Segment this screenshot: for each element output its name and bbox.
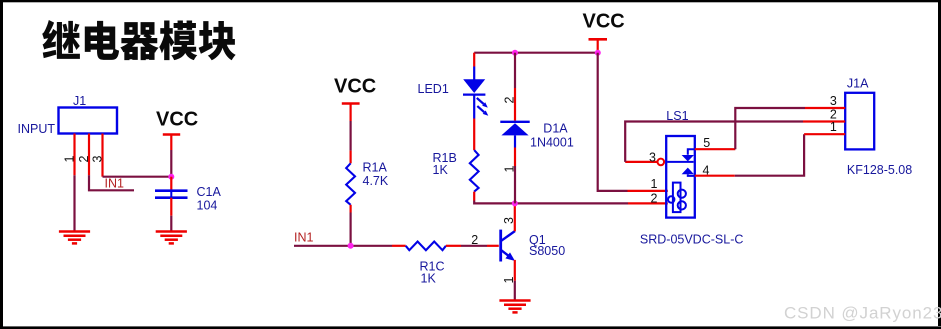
frame left border — [0, 0, 3, 329]
wire VCC to R1A — [350, 121, 352, 151]
svg-text:104: 104 — [197, 199, 218, 213]
relay NC contact arrow — [682, 155, 694, 161]
relay LS1 body — [666, 136, 695, 218]
svg-text:R1A: R1A — [363, 161, 388, 175]
svg-text:LED1: LED1 — [418, 82, 449, 96]
transistor Q1 emitter arrow — [505, 252, 515, 261]
wire relay pin5 to J1A pin3 — [735, 108, 805, 149]
Q1 emitter pin — [514, 260, 516, 281]
relay coil loop bottom — [678, 201, 686, 209]
wire R1A to IN1 node — [350, 213, 352, 246]
relay coil loop left — [668, 196, 674, 202]
svg-text:IN1: IN1 — [294, 231, 314, 245]
wire relay pin3 to J1A pin2 — [625, 122, 803, 162]
transistor Q1 emitter stroke — [501, 250, 509, 256]
svg-text:1K: 1K — [433, 163, 449, 177]
wire node to C1A — [170, 177, 172, 190]
diode D1A pin 2 — [514, 88, 516, 121]
resistor R1B body — [470, 150, 479, 192]
Q1 collector pin — [514, 204, 516, 231]
relay pin 3 circle — [658, 159, 665, 166]
svg-text:4: 4 — [703, 164, 710, 178]
resistor R1A pin top — [350, 151, 352, 164]
svg-text:3: 3 — [649, 151, 656, 165]
node junction IN1/R1A — [348, 243, 354, 249]
power port VCC top stem — [597, 39, 599, 52]
wire J1 pin1 to ground — [73, 175, 75, 231]
svg-text:2: 2 — [77, 156, 91, 163]
connector J1A body — [845, 93, 874, 150]
J1 pin 1 — [73, 134, 75, 176]
frame bottom border — [0, 326, 941, 329]
wire VCC column — [598, 53, 628, 191]
power port VCC middle bar — [342, 102, 360, 105]
wire C1A to ground — [170, 216, 172, 232]
relay coil pin1 stub — [628, 190, 668, 192]
svg-text:3: 3 — [502, 217, 516, 224]
wire J1 pin2 stub IN1 — [89, 175, 134, 190]
resistor R1A pin bottom — [350, 205, 352, 213]
resistor R1C pin right — [446, 245, 461, 247]
svg-text:1: 1 — [651, 177, 658, 191]
svg-text:D1A: D1A — [543, 122, 568, 136]
wire top rail — [474, 52, 598, 54]
D1A top pin — [514, 53, 516, 88]
svg-text:2: 2 — [471, 233, 478, 247]
svg-text:J1A: J1A — [847, 77, 869, 91]
wire relay pin4 to J1A pin1 — [735, 134, 804, 176]
node junction J1.3/VCC/C1A — [168, 174, 174, 180]
svg-text:3: 3 — [91, 156, 105, 163]
wire IN1 to R1C — [294, 245, 392, 247]
LED1 top pin — [473, 53, 475, 67]
svg-text:SRD-05VDC-SL-C: SRD-05VDC-SL-C — [640, 233, 744, 247]
svg-text:4.7K: 4.7K — [363, 174, 389, 188]
J1 pin 2 — [88, 134, 90, 176]
resistor R1C pin left — [392, 245, 406, 247]
svg-text:1K: 1K — [421, 272, 437, 286]
J1A pin 3 stub — [805, 107, 845, 109]
svg-text:VCC: VCC — [156, 109, 198, 131]
relay NC contact step — [688, 149, 694, 155]
wire R1C to Q1 — [461, 245, 487, 247]
diode LED1 triangle — [463, 79, 485, 93]
svg-text:KF128-5.08: KF128-5.08 — [847, 163, 912, 177]
title 继电器模块 — [42, 20, 235, 60]
svg-text:2: 2 — [502, 97, 516, 104]
ground under Q1 — [499, 299, 530, 302]
relay pin 3 stub — [625, 161, 657, 163]
LED1/R1B pin — [473, 119, 475, 151]
J1A pin 2 stub — [803, 120, 845, 122]
svg-text:5: 5 — [703, 136, 710, 150]
relay NO contact arrow — [682, 168, 694, 175]
svg-text:1: 1 — [830, 120, 837, 134]
LED1 anode lead — [473, 67, 475, 81]
transistor Q1 collector stroke — [501, 231, 515, 241]
svg-text:1: 1 — [63, 156, 77, 163]
power port VCC top bar — [589, 38, 608, 41]
svg-text:1N4001: 1N4001 — [530, 136, 574, 150]
relay NO contact step — [688, 174, 694, 176]
diode D1A triangle — [501, 123, 528, 135]
capacitor C1A plates — [155, 189, 188, 192]
svg-text:2: 2 — [651, 192, 658, 206]
svg-text:VCC: VCC — [334, 76, 376, 98]
relay coil loop top — [678, 190, 686, 198]
diode D1A cathode bar — [500, 121, 529, 123]
resistor R1B pin bottom — [473, 192, 475, 201]
node junction collector/D1A/R1B — [512, 200, 518, 206]
transistor Q1 base bar — [499, 230, 502, 262]
svg-text:J1: J1 — [73, 94, 86, 108]
relay coil rectangle — [673, 183, 681, 213]
relay pin 4 stub — [695, 175, 735, 177]
svg-text:IN1: IN1 — [105, 177, 125, 191]
power port VCC left bar — [163, 133, 180, 136]
svg-text:VCC: VCC — [583, 11, 625, 33]
svg-text:INPUT: INPUT — [18, 122, 56, 136]
ground under J1 pin1 — [59, 230, 90, 233]
diode LED1 cathode bar — [463, 93, 485, 95]
diode D1A anode lead — [514, 135, 516, 147]
svg-text:C1A: C1A — [197, 185, 222, 199]
power port VCC left stem — [170, 135, 172, 151]
wire D1A to node — [514, 166, 516, 203]
frame right border — [938, 0, 941, 326]
wire Q1 emitter to ground — [514, 281, 516, 301]
relay common line — [667, 161, 693, 163]
resistor R1C body — [406, 242, 446, 251]
ground under C1A — [156, 230, 187, 233]
LED1 light arrow 1 — [477, 98, 484, 104]
frame top border — [0, 0, 941, 2]
LED1 cathode lead — [473, 95, 475, 119]
svg-text:S8050: S8050 — [529, 244, 565, 258]
J1A pin 1 stub — [804, 133, 845, 135]
Q1 base pin — [487, 245, 499, 247]
relay coil pin2 stub — [628, 202, 668, 204]
C1A lead to ground — [170, 198, 172, 216]
connector J1 body — [59, 108, 118, 134]
resistor R1A body — [346, 163, 355, 205]
svg-text:CSDN @JaRyon233: CSDN @JaRyon233 — [784, 304, 941, 323]
J1 pin 3 — [101, 134, 103, 177]
node junction VCC rail — [595, 50, 601, 56]
wire R1B to node — [474, 201, 628, 204]
node junction D1A rail — [512, 50, 518, 56]
diode D1A pin 1 — [514, 148, 516, 167]
wire VCC to node — [170, 150, 172, 177]
relay pin 5 stub — [695, 148, 736, 150]
svg-text:3: 3 — [830, 94, 837, 108]
LED1 light arrow 2 — [477, 106, 484, 112]
power port VCC middle stem — [350, 104, 352, 122]
wire J1 pin3 to VCC node — [103, 176, 172, 178]
